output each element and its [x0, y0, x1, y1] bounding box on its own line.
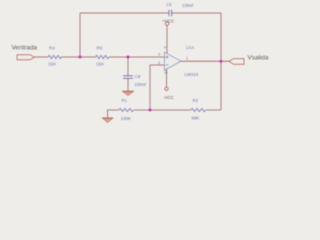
svg-text:100nF: 100nF [182, 3, 194, 8]
capacitor C8 [123, 74, 147, 87]
port Vsalida [229, 55, 269, 65]
wire C8 lower stem to ground [127, 78, 129, 91]
resistor R2 [191, 98, 206, 120]
svg-text:R2: R2 [193, 98, 199, 103]
wire C8 upper stem [127, 57, 129, 76]
svg-text:56K: 56K [192, 115, 200, 120]
wire op-amp output to Vsalida [181, 60, 230, 62]
resistor R4 [48, 46, 62, 67]
node junction R5-C8 [126, 55, 129, 58]
wire pin 2 vertical to bottom bus [149, 65, 151, 110]
svg-text:LM324: LM324 [185, 72, 199, 77]
svg-text:15K: 15K [48, 62, 57, 67]
ground under C8 [122, 91, 134, 96]
svg-text:Vsalida: Vsalida [248, 55, 269, 62]
wire feedback left vertical [79, 13, 81, 57]
wire bottom bus ground to R1 [108, 110, 120, 118]
svg-text:100nF: 100nF [134, 82, 147, 87]
wire op-amp pin 11 to -VCC [166, 68, 168, 87]
op-amp U1A [158, 45, 199, 77]
wire bottom bus R2 to right vertical [206, 109, 221, 111]
svg-text:R5: R5 [97, 46, 103, 51]
resistor R1 [119, 98, 134, 121]
svg-text:-VCC: -VCC [163, 95, 174, 100]
wire feedback right vertical [220, 13, 222, 110]
svg-text:U1A: U1A [186, 45, 195, 50]
node junction R4-R5 feedback [78, 55, 81, 58]
wire top feedback left segment [80, 12, 169, 14]
power +VCC [162, 18, 175, 25]
svg-text:+VCC: +VCC [162, 18, 175, 23]
wire input port to R4 [34, 56, 48, 58]
svg-text:C8: C8 [135, 74, 141, 79]
wire R5 to op-amp pin 3 [109, 56, 164, 58]
wire R4 to R5 [62, 56, 96, 58]
wire op-amp pin 4 to +VCC [166, 25, 168, 53]
svg-text:R4: R4 [49, 46, 55, 51]
power -VCC [163, 87, 174, 100]
svg-text:100K: 100K [121, 116, 131, 121]
wire bottom bus R1 to R2 [134, 109, 191, 111]
svg-text:C5: C5 [166, 2, 172, 7]
wire top feedback right segment [172, 12, 221, 14]
svg-text:11: 11 [164, 70, 168, 74]
capacitor C5 [166, 2, 194, 16]
node junction pin2 bus [148, 108, 151, 111]
wire op-amp pin 2 horizontal [150, 64, 164, 66]
resistor R5 [96, 46, 109, 67]
port Ventrada [12, 45, 38, 60]
ground bottom left [102, 118, 113, 123]
node junction output feedback [219, 60, 222, 63]
svg-text:Ventrada: Ventrada [12, 45, 38, 52]
svg-text:15K: 15K [96, 61, 105, 66]
svg-text:R1: R1 [122, 98, 128, 103]
